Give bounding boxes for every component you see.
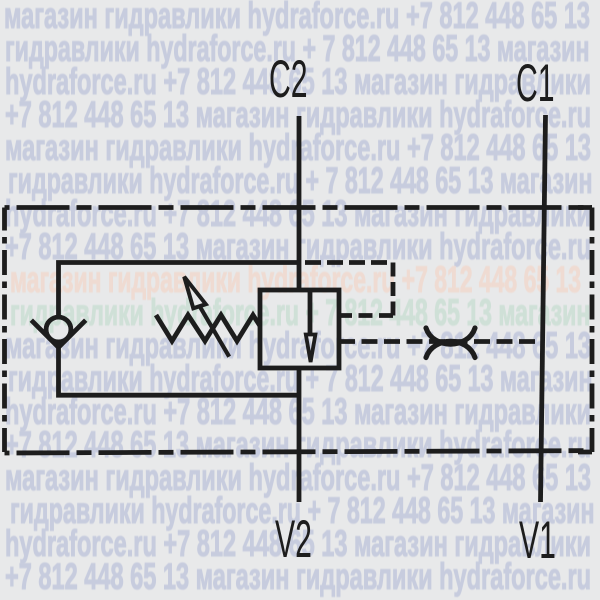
svg-text:C1: C1 <box>516 54 555 113</box>
svg-text:C2: C2 <box>269 50 308 109</box>
svg-text:V1: V1 <box>519 511 556 570</box>
svg-text:V2: V2 <box>275 510 312 569</box>
